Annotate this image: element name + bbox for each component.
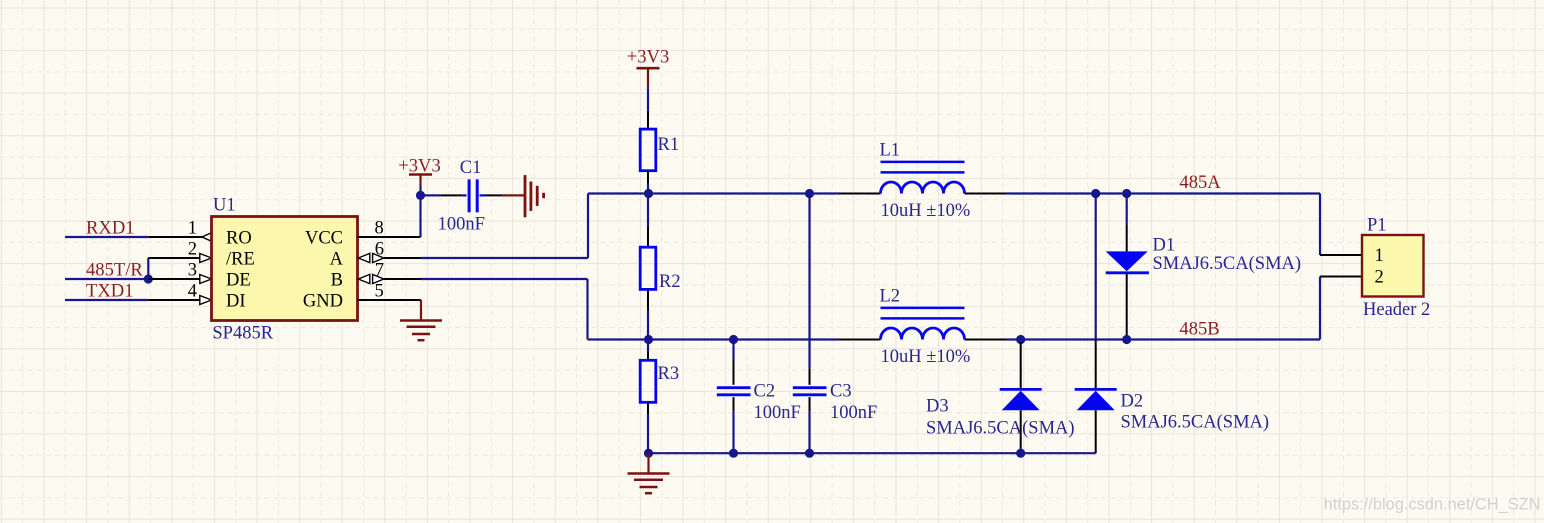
net label 485T/R [86, 260, 143, 281]
svg-text:C1: C1 [460, 158, 482, 178]
wire ground rail [649, 452, 1096, 454]
value 10uH ±10% (L1) [881, 201, 971, 221]
wire P1 pin 1 [1320, 254, 1362, 256]
svg-text:VCC: VCC [305, 229, 343, 249]
svg-text:TXD1: TXD1 [86, 281, 134, 302]
junction 485B / D1 [1122, 335, 1131, 344]
pin number 4 [188, 282, 197, 302]
svg-text:2: 2 [1375, 268, 1384, 288]
svg-text:D3: D3 [926, 397, 949, 417]
designator L1 [880, 141, 901, 161]
pin name DI [226, 292, 246, 312]
wire D2 column [1095, 194, 1097, 340]
svg-text:P1: P1 [1367, 215, 1387, 235]
net label 485B [1179, 319, 1219, 340]
pin 1 arrow (RO output) [202, 233, 212, 242]
capacitor C1 [421, 179, 503, 212]
net label 485A [1179, 172, 1221, 193]
inductor L1 [881, 162, 965, 194]
junction 485A / R1 [644, 189, 653, 198]
pin 3 arrow (DE input) [200, 275, 212, 284]
svg-text:1: 1 [1375, 246, 1384, 266]
pin 6 arrow (A bidirectional) [358, 253, 384, 262]
connector P1 body [1362, 235, 1424, 297]
value 100nF (C2) [754, 403, 801, 423]
value SMAJ6.5CA(SMA) (D2) [1121, 413, 1270, 433]
designator C2 [754, 382, 776, 402]
svg-text:D1: D1 [1153, 236, 1176, 256]
junction VCC node [416, 191, 425, 200]
value 100nF (C3) [830, 403, 877, 423]
resistor R1 [640, 111, 656, 194]
pin number 2 (P1) [1375, 268, 1384, 288]
svg-text:R2: R2 [659, 272, 681, 292]
pin name VCC [305, 229, 343, 249]
svg-text:DI: DI [226, 292, 246, 312]
junction gnd rail / R3 [644, 449, 653, 458]
designator P1 [1367, 215, 1387, 235]
wire C3 column [808, 194, 810, 369]
pin 7 arrow (B bidirectional) [358, 274, 384, 283]
op-amp U1 SP485R body [212, 217, 358, 321]
svg-text:C3: C3 [830, 382, 852, 402]
svg-text:5: 5 [375, 282, 384, 302]
svg-text:100nF: 100nF [754, 403, 801, 423]
junction gnd rail / C3 [805, 449, 814, 458]
wire 485B [588, 277, 1321, 340]
svg-text:RO: RO [226, 229, 252, 249]
pin 4 arrow (DI input) [200, 296, 212, 305]
wire TXD1 [65, 299, 200, 301]
svg-text:SMAJ6.5CA(SMA): SMAJ6.5CA(SMA) [1121, 413, 1270, 433]
wire P1 pin 2 [1320, 276, 1362, 278]
power +3V3 (left) [398, 155, 441, 195]
capacitor C3 [793, 369, 827, 454]
svg-text:DE: DE [226, 271, 251, 291]
earth ground (right of C1) [502, 175, 543, 217]
svg-text:R1: R1 [658, 135, 680, 155]
wire 485A [588, 194, 1320, 256]
inductor L2 [881, 308, 965, 340]
net label TXD1 [86, 281, 134, 302]
wire B [384, 279, 588, 340]
svg-text:485B: 485B [1179, 319, 1219, 340]
pin number 5 [375, 282, 384, 302]
value SMAJ6.5CA(SMA) (D1) [1153, 254, 1302, 274]
value SMAJ6.5CA(SMA) (D3) [926, 419, 1075, 439]
svg-text:3: 3 [188, 261, 197, 281]
svg-text:8: 8 [375, 219, 384, 239]
pin name RO [226, 229, 252, 249]
svg-text:RXD1: RXD1 [86, 218, 135, 239]
svg-text:R3: R3 [658, 364, 680, 384]
svg-text:100nF: 100nF [438, 215, 485, 235]
value 100nF [438, 215, 485, 235]
resistor R3 [640, 340, 656, 454]
svg-text:4: 4 [188, 282, 197, 302]
designator U1 [213, 196, 236, 216]
pin number 1 (P1) [1375, 246, 1384, 266]
svg-text:L2: L2 [880, 287, 901, 307]
pin number 2 [188, 240, 197, 260]
svg-text:485A: 485A [1179, 172, 1221, 193]
svg-text:C2: C2 [754, 382, 776, 402]
svg-text:SMAJ6.5CA(SMA): SMAJ6.5CA(SMA) [926, 419, 1075, 439]
junction 485A / C3 [805, 189, 814, 198]
diode D3 [1000, 342, 1042, 453]
svg-text:Header 2: Header 2 [1363, 300, 1430, 320]
junction 485B / C2 [729, 335, 738, 344]
svg-text:B: B [331, 271, 343, 291]
wire DE [148, 278, 200, 280]
diode D1 [1106, 194, 1149, 340]
value Header 2 [1363, 300, 1430, 320]
junction 485B / R2 [644, 335, 653, 344]
net label RXD1 [86, 218, 135, 239]
svg-text:U1: U1 [213, 196, 236, 216]
ground (bottom) [628, 453, 670, 493]
pin name B [331, 271, 343, 291]
capacitor C2 [717, 340, 751, 454]
wire A [384, 194, 588, 259]
ground (below U1) [400, 300, 442, 340]
pin name A [330, 250, 344, 270]
svg-text:+3V3: +3V3 [627, 47, 670, 68]
diode D2 [1075, 340, 1117, 454]
designator D2 [1121, 391, 1144, 411]
pin number 7 [375, 261, 384, 281]
value 10uH ±10% (L2) [881, 347, 971, 367]
pin 2 arrow (/RE input) [200, 254, 212, 263]
wire 485T/R [65, 278, 148, 280]
junction gnd rail / C2 [729, 449, 738, 458]
svg-text:2: 2 [188, 240, 197, 260]
svg-text:SP485R: SP485R [212, 324, 273, 344]
junction gnd rail / D3 [1016, 449, 1025, 458]
designator D3 [926, 397, 949, 417]
svg-text:10uH ±10%: 10uH ±10% [881, 201, 971, 221]
designator C3 [830, 382, 852, 402]
svg-text:https://blog.csdn.net/CH_SZN: https://blog.csdn.net/CH_SZN [1324, 496, 1541, 514]
watermark [1324, 496, 1541, 514]
junction 485A / D1 [1122, 189, 1131, 198]
junction 485A / D2 [1091, 189, 1100, 198]
svg-text:1: 1 [188, 219, 197, 239]
wire RXD1 [65, 236, 203, 238]
pin number 8 [375, 219, 384, 239]
svg-text:A: A [330, 250, 344, 270]
svg-text:GND: GND [303, 292, 343, 312]
wire VCC pin 8 [358, 195, 421, 237]
svg-text:100nF: 100nF [830, 403, 877, 423]
value SP485R [212, 324, 273, 344]
pin name GND [303, 292, 343, 312]
svg-text:L1: L1 [880, 141, 901, 161]
junction 485T/R [144, 274, 153, 283]
designator R2 [659, 272, 681, 292]
pin name DE [226, 271, 251, 291]
pin name /RE [226, 250, 255, 270]
junction 485B / D3 [1016, 335, 1025, 344]
power +3V3 (top) [627, 47, 670, 111]
wire /RE branch [148, 258, 200, 279]
svg-text:D2: D2 [1121, 391, 1144, 411]
svg-text:10uH ±10%: 10uH ±10% [881, 347, 971, 367]
designator D1 [1153, 236, 1176, 256]
svg-text:SMAJ6.5CA(SMA): SMAJ6.5CA(SMA) [1153, 254, 1302, 274]
pin number 3 [188, 261, 197, 281]
resistor R2 [640, 194, 656, 340]
pin number 6 [375, 240, 384, 260]
designator R3 [658, 364, 680, 384]
designator L2 [880, 287, 901, 307]
svg-text:485T/R: 485T/R [86, 260, 143, 281]
wire GND pin 5 [358, 299, 422, 301]
designator C1 [460, 158, 482, 178]
designator R1 [658, 135, 680, 155]
svg-text:/RE: /RE [226, 250, 255, 270]
pin number 1 [188, 219, 197, 239]
